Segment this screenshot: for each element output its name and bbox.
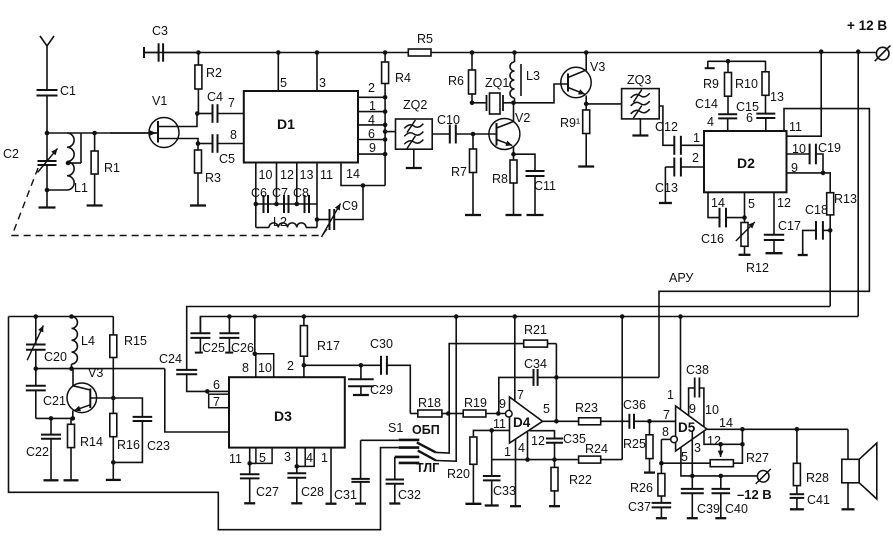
svg-text:8: 8 [230, 128, 237, 142]
svg-text:R5: R5 [417, 32, 433, 46]
wire R21 right [555, 344, 557, 422]
svg-text:V3: V3 [88, 366, 103, 380]
capacitor C17 [764, 234, 784, 236]
capacitor C21 [35, 369, 37, 386]
dashed tuning linkage [12, 168, 327, 236]
ground C37 [656, 517, 667, 519]
svg-text:1: 1 [504, 445, 511, 459]
node pin8 stub [253, 352, 258, 357]
resistor R27 [710, 460, 733, 467]
antenna [40, 36, 54, 46]
capacitor C29 [360, 365, 362, 379]
svg-text:8: 8 [242, 361, 249, 375]
IC D3 [229, 377, 345, 447]
ground ZQ3 [632, 134, 648, 136]
svg-text:12: 12 [531, 434, 545, 448]
capacitor C26 [228, 317, 230, 334]
svg-text:C5: C5 [219, 152, 235, 166]
node L3 top [512, 50, 517, 55]
svg-text:R2: R2 [206, 66, 222, 80]
inductor L1 [67, 133, 74, 190]
capacitor C24 [176, 369, 197, 371]
wire V2 to V3 base [514, 84, 569, 103]
node rail drop [856, 49, 861, 54]
svg-text:6: 6 [746, 111, 753, 125]
svg-text:7: 7 [663, 408, 670, 422]
switch S1 arm 2 [418, 451, 436, 461]
node V2 base [471, 132, 476, 137]
svg-text:ZQ1: ZQ1 [485, 76, 509, 90]
svg-text:10: 10 [705, 403, 719, 417]
svg-text:11: 11 [320, 168, 333, 182]
capacitor C15 [756, 113, 775, 115]
ground R9p [578, 165, 594, 167]
svg-text:C6: C6 [251, 186, 267, 200]
switch S1 contact 1 [399, 439, 420, 442]
node pin12 R22 [552, 457, 557, 462]
wire pin9 to R13 [823, 173, 830, 193]
node C20 bottom [34, 366, 39, 371]
node pin3 C39 [690, 474, 695, 479]
svg-text:C2: C2 [3, 147, 19, 161]
svg-text:V3: V3 [590, 60, 605, 74]
node pin6 [383, 137, 388, 142]
svg-text:2: 2 [692, 151, 699, 165]
tick C26 [225, 352, 233, 354]
svg-text:11: 11 [789, 120, 802, 134]
capacitor C13 [665, 166, 674, 168]
svg-text:R15: R15 [124, 334, 147, 348]
svg-text:C1: C1 [60, 84, 76, 98]
node C20 top [34, 314, 39, 319]
terminal +12V [876, 47, 889, 60]
node R1 top [92, 131, 97, 136]
wire D2 pin12 [773, 192, 775, 235]
ground C27 [244, 502, 255, 504]
node pin1 top [678, 314, 683, 319]
svg-text:3: 3 [319, 76, 326, 90]
ground C39 [687, 517, 698, 519]
ground R8 [506, 214, 522, 216]
svg-text:4: 4 [707, 115, 714, 129]
ground R20 [465, 503, 481, 505]
node R17 pin2 [302, 363, 307, 368]
svg-text:5: 5 [280, 76, 287, 90]
ground pin1 D3 [326, 503, 337, 505]
wire D3 pin1 [330, 448, 332, 504]
switch S1 contact 4 [399, 462, 420, 465]
crystal ZQ1 [472, 102, 487, 104]
svg-text:8: 8 [662, 425, 669, 439]
capacitor C22 [50, 418, 52, 434]
ground C17 [766, 252, 783, 254]
wire out to pin12 [741, 429, 743, 444]
capacitor C12 [673, 136, 675, 155]
capacitor C11 [514, 154, 536, 171]
wire D3 pin3 [296, 448, 298, 474]
resistor R10 [765, 61, 767, 72]
node C4 [195, 111, 200, 116]
wire D4 pin7 [514, 317, 516, 401]
wire D3 pin7 box [209, 394, 229, 408]
ground R16 [106, 479, 121, 481]
svg-text:R6: R6 [448, 74, 464, 88]
transistor V3 upper [561, 67, 591, 97]
wire R24 to line C [621, 317, 623, 460]
svg-text:C25: C25 [202, 341, 225, 355]
ground C41 [790, 508, 804, 510]
capacitor C8 [304, 195, 306, 213]
resistor R3 [197, 144, 199, 151]
svg-text:C24: C24 [159, 352, 182, 366]
wire gpd loop left [9, 316, 114, 318]
svg-text:R13: R13 [834, 192, 857, 206]
wire D2 pin9 [787, 172, 824, 174]
transistor V2 [489, 119, 520, 150]
svg-text:R22: R22 [569, 473, 592, 487]
svg-text:R8: R8 [492, 172, 508, 186]
wire D2 pin5 [744, 192, 746, 222]
svg-text:14: 14 [346, 167, 360, 181]
wire D2 pin11 [787, 52, 822, 137]
node pin4 [525, 457, 530, 462]
svg-text:C18: C18 [805, 203, 828, 217]
node D1 pin3 [315, 50, 320, 55]
wire D1 pin1 stub [358, 111, 385, 113]
wire D5 pin1 [680, 317, 682, 410]
wire D1 pin11 [316, 163, 318, 220]
ground C11 [527, 214, 544, 216]
wire D5 pin7 [650, 420, 676, 422]
svg-text:1: 1 [667, 388, 674, 402]
capacitor C40 [720, 476, 722, 489]
capacitor C18 [823, 229, 830, 231]
svg-text:C29: C29 [370, 383, 393, 397]
svg-text:7: 7 [228, 96, 235, 110]
inductor L3 [514, 53, 516, 63]
svg-text:2: 2 [287, 359, 294, 373]
svg-text:10: 10 [792, 142, 806, 156]
svg-text:C17: C17 [778, 219, 801, 233]
svg-text:C12: C12 [655, 120, 678, 134]
wire D1 pin12 [276, 163, 278, 205]
svg-text:C36: C36 [623, 398, 646, 412]
node emitter row C22 [49, 416, 54, 421]
svg-text:R24: R24 [585, 442, 608, 456]
node R24 line C [620, 314, 625, 319]
svg-text:C8: C8 [293, 186, 309, 200]
node cap row 1 [254, 202, 259, 207]
capacitor C32 [394, 457, 396, 480]
resistor R25 [649, 421, 651, 435]
ground C13 [659, 202, 672, 204]
svg-text:S1: S1 [388, 421, 403, 435]
wire C3 left end tick [143, 47, 145, 58]
node pin11 C27 [247, 461, 252, 466]
node pin5 C16 [742, 215, 747, 220]
wire emitter row [36, 417, 73, 419]
svg-text:АРУ: АРУ [669, 271, 693, 285]
node cap row 3 [295, 202, 300, 207]
resistor R5 [408, 49, 431, 56]
wire D1 pin2 stub [358, 96, 385, 98]
wire D2 pin13 AGC [659, 109, 869, 378]
svg-text:5: 5 [543, 402, 550, 416]
wire cap row [256, 203, 317, 205]
tick C25 [195, 352, 203, 354]
node V3b base [111, 396, 116, 401]
svg-text:L4: L4 [81, 334, 95, 348]
wire D4 bottom row [492, 459, 578, 461]
ground R12 [739, 254, 751, 256]
svg-text:13: 13 [300, 168, 314, 182]
wire line B supply [187, 307, 830, 371]
svg-text:R18: R18 [418, 396, 441, 410]
capacitor C27 [240, 473, 260, 475]
op-amp D4 [510, 397, 543, 443]
ground R3 [190, 204, 206, 206]
wire D4 pin1 [515, 439, 517, 506]
node pin11 C33 [489, 428, 494, 433]
svg-text:R9: R9 [703, 77, 719, 91]
resistor R9 [727, 61, 729, 72]
svg-text:5: 5 [681, 450, 688, 464]
node pin14 [361, 183, 366, 188]
ground ZQ2 [406, 167, 422, 169]
tick R9 rail [705, 67, 715, 69]
transistor V3 lower [67, 383, 97, 413]
wire D5 pin3 [691, 431, 693, 476]
svg-text:C19: C19 [818, 141, 841, 155]
svg-text:C35: C35 [563, 432, 586, 446]
node C5 [196, 141, 201, 146]
resistor R1 [94, 133, 96, 151]
node C26 top [227, 314, 232, 319]
svg-text:C31: C31 [334, 488, 357, 502]
wire D1 pin9 stub [358, 153, 385, 155]
node A1 [45, 131, 50, 136]
wire R21 left [449, 344, 524, 414]
svg-text:10: 10 [259, 168, 273, 182]
node C34 right [554, 375, 559, 380]
node R16 bottom [111, 460, 116, 465]
node emitter row R14 [71, 416, 76, 421]
ground C31 [355, 502, 366, 504]
node L4 bottom [69, 366, 74, 371]
wire D4 pin4 [527, 432, 529, 460]
svg-text:R16: R16 [117, 438, 140, 452]
wire ZQ3 ground [639, 118, 641, 135]
capacitor C35 [546, 438, 563, 440]
wire D3 pin4 stub [305, 448, 314, 467]
resistor R28 [796, 429, 798, 463]
svg-text:C28: C28 [301, 485, 324, 499]
wire ZQ3 out [659, 106, 675, 145]
ground speaker [842, 508, 855, 510]
svg-text:C20: C20 [44, 350, 67, 364]
capacitor C30 [380, 356, 382, 375]
svg-text:C3: C3 [152, 24, 168, 38]
node pin8 R26 [659, 461, 664, 466]
terminal -12V [757, 471, 769, 483]
ground pin1 D4 [510, 505, 521, 507]
svg-text:9: 9 [499, 397, 506, 411]
ground R1 [87, 204, 103, 206]
wire gpd tank [36, 368, 165, 370]
svg-text:14: 14 [711, 196, 725, 210]
svg-text:C27: C27 [256, 485, 279, 499]
svg-text:12: 12 [707, 434, 721, 448]
wire S1 arm1 lead [436, 414, 449, 454]
wire gpd to D3 [165, 369, 229, 432]
svg-text:C11: C11 [534, 179, 556, 193]
svg-text:R23: R23 [575, 401, 598, 415]
svg-text:R1: R1 [104, 161, 120, 175]
IC D1 [244, 91, 358, 163]
wire C9 right [334, 186, 363, 220]
svg-text:6: 6 [213, 378, 220, 392]
svg-text:R25: R25 [623, 437, 646, 451]
svg-text:R3: R3 [205, 171, 221, 185]
ground R14 [64, 479, 79, 481]
node C29 top [359, 363, 364, 368]
resistor R21 [524, 340, 548, 347]
wire +12 drop right [857, 52, 859, 317]
capacitor C2 variable [46, 133, 48, 161]
ground C32 [389, 502, 400, 504]
inductor L4 [72, 317, 78, 365]
svg-text:V2: V2 [515, 111, 530, 125]
node pin9 [383, 152, 388, 157]
svg-text:9: 9 [791, 161, 798, 175]
wire D1 pin14 [341, 163, 385, 186]
svg-text:5: 5 [748, 197, 755, 211]
capacitor C6 [263, 195, 265, 213]
svg-text:12: 12 [777, 196, 791, 210]
node pin3 C28 [295, 464, 300, 469]
capacitor C9 variable [329, 209, 331, 230]
capacitor C23 [113, 398, 142, 417]
node R13 C18 [828, 228, 833, 233]
inductor L2 [255, 204, 257, 228]
resistor R6 [471, 53, 473, 71]
capacitor C14 [718, 113, 737, 115]
wire C13 ground [664, 167, 666, 202]
wire D4 output [543, 420, 579, 422]
svg-text:7: 7 [213, 395, 220, 409]
svg-text:C14: C14 [695, 97, 718, 111]
capacitor C7 [283, 195, 285, 213]
node A2 [45, 188, 50, 193]
capacitor C25 [199, 317, 201, 334]
resistor R14 [70, 418, 72, 424]
svg-text:R9¹: R9¹ [560, 116, 580, 130]
ground C18 [798, 254, 808, 256]
wire D4 pin11 [473, 430, 509, 437]
crystal filter ZQ2 [396, 119, 433, 149]
switch S1 contact 3 [395, 456, 420, 459]
ground C29 [353, 394, 369, 396]
node R6 top [470, 50, 475, 55]
resistor R8 [513, 154, 515, 160]
ground R22 [549, 505, 560, 507]
node pin4 [383, 123, 388, 128]
node out fb [740, 427, 745, 432]
svg-text:C22: C22 [26, 445, 49, 459]
svg-text:C9: C9 [342, 199, 358, 213]
crystal filter ZQ3 [622, 89, 660, 119]
svg-text:C16: C16 [701, 232, 724, 246]
wire D5 pin8 [661, 438, 670, 440]
svg-text:5: 5 [259, 451, 266, 465]
svg-text:+ 12 В: + 12 В [847, 18, 887, 33]
node L1 tap [66, 161, 71, 166]
ground tank [39, 206, 56, 208]
svg-text:9: 9 [689, 402, 696, 416]
wire D3 pin11 [249, 448, 251, 475]
wire D1 pin5 [277, 53, 279, 92]
svg-text:R19: R19 [464, 396, 487, 410]
resistor R20 [470, 437, 477, 464]
wire +12V top rail [144, 52, 408, 54]
svg-text:11: 11 [229, 452, 242, 466]
node pin12 wiper [718, 442, 723, 447]
svg-text:C38: C38 [686, 363, 709, 377]
switch S1 contact 2 [399, 446, 420, 449]
resistor R23 [579, 418, 601, 425]
svg-text:C21: C21 [43, 394, 66, 408]
resistor R13 [827, 193, 834, 215]
resistor R4 [384, 53, 386, 63]
ground C28 [291, 502, 302, 504]
wire gpd big loop [9, 317, 399, 530]
node V3 emitter [584, 102, 589, 107]
resistor R17 [303, 317, 305, 326]
svg-text:C32: C32 [398, 488, 421, 502]
svg-text:C10: C10 [437, 113, 460, 127]
svg-text:R12: R12 [746, 261, 769, 275]
wire D3 pin6 [207, 390, 229, 392]
capacitor C31 [360, 440, 362, 479]
capacitor C28 [287, 472, 306, 474]
node C9 left [315, 217, 320, 222]
svg-text:2: 2 [368, 81, 375, 95]
capacitor C4 [197, 113, 212, 115]
wire D1 pin10 [255, 163, 257, 205]
svg-text:ОБП: ОБП [412, 423, 440, 437]
wire D1 pin4 stub [358, 124, 385, 126]
wire C31 to S1 [361, 439, 399, 441]
svg-text:D3: D3 [274, 408, 292, 424]
svg-text:D4: D4 [513, 415, 531, 430]
svg-text:R20: R20 [447, 467, 470, 481]
svg-text:C7: C7 [272, 186, 288, 200]
node R19 out [496, 411, 501, 416]
resistor R19 [448, 413, 463, 415]
capacitor C36 [628, 414, 630, 429]
svg-text:14: 14 [719, 416, 733, 430]
resistor R7 [472, 134, 474, 149]
node pin12 right [740, 442, 745, 447]
node V2 emitter [511, 152, 516, 157]
capacitor C19 [809, 144, 811, 165]
wire D5 pin5 [681, 447, 692, 476]
wire AGC to C34 [556, 376, 659, 378]
svg-text:3: 3 [694, 441, 701, 455]
node D1 pin5 [276, 50, 281, 55]
svg-text:C39: C39 [697, 502, 720, 516]
wire -12V bus [692, 475, 757, 477]
